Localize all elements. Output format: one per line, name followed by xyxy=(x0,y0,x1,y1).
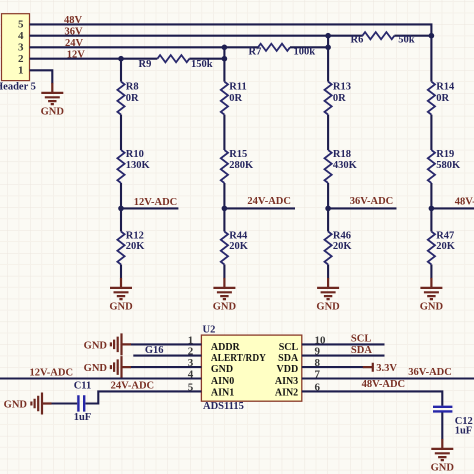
resistor R12 20K xyxy=(117,232,124,265)
ground (power port at pin 1) xyxy=(111,333,131,355)
svg-text:430K: 430K xyxy=(333,160,358,171)
resistor R9 150k xyxy=(157,55,189,62)
svg-text:SCL: SCL xyxy=(351,334,371,345)
capacitor C12 1uF xyxy=(433,407,452,412)
svg-text:20K: 20K xyxy=(333,241,353,252)
wire 48V rail xyxy=(30,24,432,35)
svg-text:R12: R12 xyxy=(126,231,144,242)
wire net stub 12V-ADC xyxy=(121,207,178,209)
svg-text:1uF: 1uF xyxy=(74,412,92,423)
pin 3 GND wire xyxy=(131,366,202,368)
node junction 24V rail xyxy=(222,45,228,51)
svg-text:4: 4 xyxy=(188,369,194,381)
resistor R10 130K xyxy=(117,150,124,183)
ground (column 2) xyxy=(213,278,237,313)
svg-text:AIN3: AIN3 xyxy=(275,376,298,387)
column 2 (24V divider) vertical wire xyxy=(223,47,225,278)
svg-text:C11: C11 xyxy=(74,381,92,392)
svg-text:0R: 0R xyxy=(436,93,449,104)
svg-text:8: 8 xyxy=(315,357,321,369)
node junction 48V-ADC xyxy=(429,206,435,212)
svg-text:24V-ADC: 24V-ADC xyxy=(247,196,291,207)
pin 9 SDA wire xyxy=(302,355,385,357)
svg-text:20K: 20K xyxy=(126,241,146,252)
resistor R15 280K xyxy=(221,150,228,183)
node junction 24V-ADC xyxy=(222,206,228,212)
svg-text:GND: GND xyxy=(84,363,108,374)
ground (below C12) xyxy=(431,439,455,474)
wire 24V rail xyxy=(30,46,225,48)
svg-text:36V-ADC: 36V-ADC xyxy=(408,367,452,378)
svg-text:7: 7 xyxy=(315,369,321,381)
svg-text:R11: R11 xyxy=(229,82,247,93)
svg-text:G16: G16 xyxy=(145,345,164,356)
svg-text:SCL: SCL xyxy=(279,342,299,353)
power port 3.3V bar xyxy=(363,363,373,372)
svg-text:U2: U2 xyxy=(203,324,216,335)
svg-text:150k: 150k xyxy=(191,59,213,70)
svg-text:R13: R13 xyxy=(333,82,351,93)
svg-text:3: 3 xyxy=(188,357,194,369)
svg-text:R47: R47 xyxy=(436,231,454,242)
ground (header pin 1) xyxy=(41,83,65,118)
svg-text:1: 1 xyxy=(188,334,194,346)
resistor R7 100k xyxy=(224,46,258,48)
svg-text:R15: R15 xyxy=(229,149,247,160)
resistor R19 580K xyxy=(428,150,435,183)
svg-text:0R: 0R xyxy=(333,93,346,104)
svg-text:R44: R44 xyxy=(229,231,248,242)
svg-text:10: 10 xyxy=(315,334,327,346)
svg-text:2: 2 xyxy=(18,53,24,65)
svg-text:50k: 50k xyxy=(398,35,415,46)
svg-text:R8: R8 xyxy=(126,82,139,93)
svg-text:3: 3 xyxy=(18,41,24,53)
pin 2 ALERT/RDY wire, net G16 xyxy=(133,355,201,357)
svg-text:4: 4 xyxy=(18,30,24,42)
svg-text:R19: R19 xyxy=(436,149,454,160)
svg-text:48V: 48V xyxy=(64,15,83,26)
op-amp/IC U2 ADS1115 body xyxy=(201,335,301,401)
node junction 12V-ADC xyxy=(118,206,124,212)
node junction R7 right xyxy=(325,45,331,51)
node junction 36V-ADC xyxy=(325,206,331,212)
svg-text:20K: 20K xyxy=(436,241,456,252)
ground (column 4) xyxy=(420,278,444,313)
svg-text:ALERT/RDY: ALERT/RDY xyxy=(211,353,267,364)
wire C12 bottom to ground xyxy=(441,413,443,440)
wire net stub 36V-ADC xyxy=(328,207,396,209)
svg-text:100k: 100k xyxy=(294,46,316,57)
pin 4 AIN0 wire, net 12V-ADC xyxy=(0,377,201,379)
svg-text:48V-ADC: 48V-ADC xyxy=(362,379,406,390)
svg-text:SDA: SDA xyxy=(278,353,299,364)
ground (power port left of C11) xyxy=(31,393,51,415)
svg-text:12V: 12V xyxy=(67,49,86,60)
svg-text:R10: R10 xyxy=(126,149,144,160)
svg-text:R46: R46 xyxy=(333,231,351,242)
svg-text:280K: 280K xyxy=(229,160,254,171)
svg-text:AIN1: AIN1 xyxy=(211,388,234,399)
svg-text:VDD: VDD xyxy=(277,364,299,375)
node junction R6 right xyxy=(429,33,435,39)
svg-text:580K: 580K xyxy=(436,160,461,171)
column 1 (12V divider) vertical wire xyxy=(120,59,122,279)
resistor R6 50k xyxy=(328,35,362,37)
svg-text:24V: 24V xyxy=(65,38,84,49)
svg-text:0R: 0R xyxy=(229,93,242,104)
pin 7 AIN3 wire, net 36V-ADC xyxy=(302,377,474,379)
svg-text:20K: 20K xyxy=(229,241,249,252)
resistor R47 20K xyxy=(428,232,435,265)
resistor R44 20K xyxy=(221,232,228,265)
column 4 (48V divider) vertical wire xyxy=(430,36,432,279)
resistor R18 430K xyxy=(325,150,332,183)
node junction 36V rail xyxy=(325,33,331,39)
svg-text:R18: R18 xyxy=(333,149,351,160)
svg-text:SDA: SDA xyxy=(351,345,372,356)
svg-text:12V-ADC: 12V-ADC xyxy=(134,197,178,208)
svg-text:1: 1 xyxy=(18,65,24,77)
wire R9 right to node xyxy=(189,58,224,60)
resistor R14 0R xyxy=(428,82,435,115)
svg-text:R7: R7 xyxy=(249,46,262,57)
wire net stub 24V-ADC xyxy=(224,207,295,209)
svg-text:5: 5 xyxy=(18,19,24,31)
resistor R13 0R xyxy=(325,82,332,115)
ground (column 1) xyxy=(109,278,133,313)
svg-text:R6: R6 xyxy=(351,35,364,46)
ground (power port at pin 3) xyxy=(111,356,131,378)
resistor R46 20K xyxy=(325,232,332,265)
wire header pin1 to GND xyxy=(30,70,53,83)
capacitor C11 1uF xyxy=(78,395,84,411)
svg-text:36V-ADC: 36V-ADC xyxy=(350,196,394,207)
pin 1 ADDR wire xyxy=(131,343,202,345)
svg-text:3.3V: 3.3V xyxy=(376,363,397,374)
pin 5 AIN1 wire, net 24V-ADC xyxy=(86,391,202,403)
svg-text:ADS1115: ADS1115 xyxy=(203,401,244,412)
svg-text:9: 9 xyxy=(315,346,321,358)
svg-text:130K: 130K xyxy=(126,160,151,171)
svg-text:36V: 36V xyxy=(65,26,84,37)
ground (column 3) xyxy=(316,278,340,313)
svg-text:24V-ADC: 24V-ADC xyxy=(111,380,155,391)
pin 10 SCL wire xyxy=(302,343,385,345)
svg-text:6: 6 xyxy=(315,381,321,393)
svg-text:0R: 0R xyxy=(126,93,139,104)
svg-text:1uF: 1uF xyxy=(455,426,473,437)
svg-text:GND: GND xyxy=(211,364,233,375)
resistor R8 0R xyxy=(117,82,124,115)
connector J1 Header 5 xyxy=(2,14,30,81)
svg-text:2: 2 xyxy=(188,346,194,358)
svg-text:GND: GND xyxy=(84,340,108,351)
pin 8 VDD wire to 3.3V xyxy=(302,366,364,368)
node junction R9 right xyxy=(222,56,228,62)
wire 36V rail xyxy=(30,35,329,37)
svg-text:GND: GND xyxy=(4,400,28,411)
wire net stub 48V-ADC xyxy=(431,207,474,209)
node junction 12V top xyxy=(118,56,124,62)
svg-text:R14: R14 xyxy=(436,82,455,93)
wire C11 left to ground xyxy=(51,402,77,404)
resistor R11 0R xyxy=(221,82,228,115)
svg-text:R9: R9 xyxy=(139,59,152,70)
svg-text:Header 5: Header 5 xyxy=(0,82,36,93)
svg-text:AIN2: AIN2 xyxy=(275,388,298,399)
pin 6 AIN2 wire, net 48V-ADC xyxy=(302,391,443,405)
wire 12V rail (left of R9) xyxy=(30,58,158,60)
svg-text:ADDR: ADDR xyxy=(211,342,241,353)
svg-text:AIN0: AIN0 xyxy=(211,376,234,387)
svg-text:5: 5 xyxy=(188,381,194,393)
column 3 (36V divider) vertical wire xyxy=(327,36,329,279)
svg-text:48V-ADC: 48V-ADC xyxy=(455,196,474,207)
svg-text:12V-ADC: 12V-ADC xyxy=(30,367,74,378)
